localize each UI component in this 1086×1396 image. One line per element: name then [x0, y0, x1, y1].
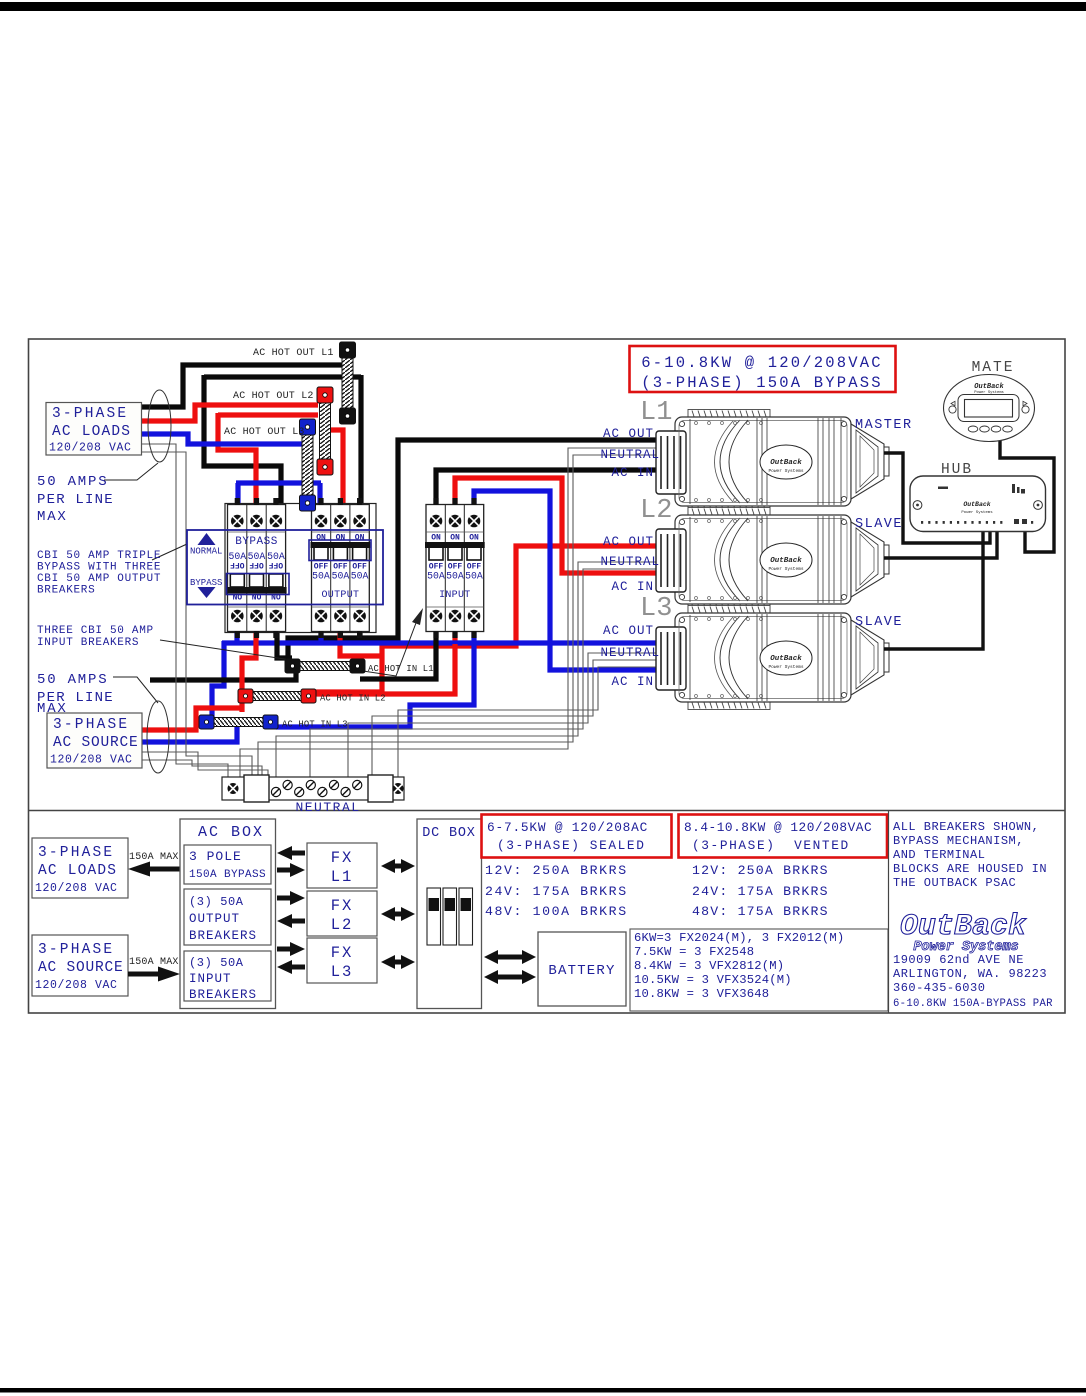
svg-text:(3) 50A: (3) 50A: [189, 956, 244, 970]
breaker module INPUT (3x 50A): [425, 498, 485, 638]
svg-text:ON: ON: [355, 534, 365, 543]
svg-text:3-PHASE: 3-PHASE: [38, 942, 114, 958]
svg-text:AC HOT OUT L2: AC HOT OUT L2: [233, 391, 314, 402]
title box 6-10.8KW: [630, 346, 896, 392]
svg-text:L1: L1: [331, 868, 354, 886]
svg-text:BYPASS: BYPASS: [235, 536, 278, 548]
svg-text:SLAVE: SLAVE: [855, 517, 903, 532]
svg-text:360-435-6030: 360-435-6030: [893, 981, 985, 995]
svg-text:24V: 175A BRKRS: 24V: 175A BRKRS: [692, 884, 829, 899]
arrow FX L1 to DC BOX: [381, 859, 415, 873]
svg-text:AC LOADS: AC LOADS: [38, 863, 117, 879]
svg-text:150A MAX: 150A MAX: [129, 852, 179, 863]
HUB communications manager: [910, 476, 1046, 532]
terminal strip AC HOT IN L2 (red): [238, 689, 316, 703]
block label AC LOADS: [35, 845, 118, 895]
svg-text:10.8KW = 3 VFX3648: 10.8KW = 3 VFX3648: [634, 987, 769, 1001]
svg-text:BYPASS WITH THREE: BYPASS WITH THREE: [37, 562, 161, 574]
svg-text:ON: ON: [450, 534, 460, 543]
svg-text:ON: ON: [316, 534, 326, 543]
label 3-PHASE AC SOURCE: [50, 717, 139, 767]
svg-text:INPUT: INPUT: [189, 972, 232, 986]
svg-text:Power Systems: Power Systems: [768, 664, 803, 670]
note CBI 50 AMP TRIPLE BYPASS: [37, 550, 161, 597]
svg-text:AND TERMINAL: AND TERMINAL: [893, 848, 985, 862]
svg-text:10.5KW = 3 VFX3524(M): 10.5KW = 3 VFX3524(M): [634, 973, 792, 987]
svg-text:12V: 250A BRKRS: 12V: 250A BRKRS: [692, 863, 829, 878]
svg-text:(3-PHASE) VENTED: (3-PHASE) VENTED: [692, 838, 850, 853]
AC BOX pole block: [184, 845, 271, 884]
svg-text:150A BYPASS: 150A BYPASS: [189, 869, 266, 881]
svg-text:ALL BREAKERS SHOWN,: ALL BREAKERS SHOWN,: [893, 820, 1039, 834]
cable inverter L2 to HUB: [884, 531, 997, 558]
svg-text:INPUT: INPUT: [439, 590, 471, 601]
leader line three CBI input breakers note: [160, 615, 419, 676]
kW model table text: [634, 931, 844, 1001]
arrow bypass block to FX L1: [277, 863, 305, 877]
svg-text:3 POLE: 3 POLE: [189, 849, 242, 864]
AC BOX input breakers block: [184, 951, 271, 1001]
svg-text:AC IN: AC IN: [611, 466, 654, 480]
svg-text:BATTERY: BATTERY: [548, 963, 615, 979]
neutral terminal block: [222, 775, 404, 802]
sealed breaker specs: [485, 863, 628, 919]
svg-text:FX: FX: [331, 944, 354, 962]
svg-text:AC IN: AC IN: [611, 675, 654, 689]
svg-text:3-PHASE: 3-PHASE: [53, 717, 129, 733]
arrow AC BOX to loads: [128, 862, 180, 877]
spec box sealed: [482, 815, 672, 858]
wire red INPUT pole2 bottom tap: [452, 626, 457, 648]
svg-text:50 AMPS: 50 AMPS: [37, 672, 108, 688]
note 50 AMPS PER LINE MAX (source): [37, 672, 114, 717]
svg-text:AC OUT: AC OUT: [603, 624, 654, 638]
cable inverter L1 to HUB: [884, 453, 990, 543]
wire black AC HOT OUT L1 from loads box to terminal strip L1: [141, 365, 344, 407]
node box 3-PHASE AC LOADS: [46, 403, 142, 456]
wire black from strip L1 down to OUTPUT breaker pole 3: [358, 375, 363, 508]
neutral wire L1 inverter a: [240, 448, 657, 777]
svg-text:AC HOT OUT L3: AC HOT OUT L3: [224, 427, 305, 438]
block box BATTERY: [538, 932, 626, 1006]
svg-text:HUB: HUB: [941, 462, 973, 478]
wire blue OUTPUT pole1 bottom tap: [318, 626, 323, 645]
svg-text:NEUTRAL: NEUTRAL: [600, 448, 660, 462]
arrow DC BOX to battery a: [484, 950, 536, 964]
svg-text:L2: L2: [640, 496, 672, 526]
wire blue AC HOT OUT L3 from loads box to terminal strip L3: [142, 434, 302, 444]
svg-text:120/208 VAC: 120/208 VAC: [35, 979, 118, 992]
inverter L1 (FX master): [656, 410, 889, 514]
svg-text:BREAKERS: BREAKERS: [189, 988, 257, 1002]
svg-text:L2: L2: [331, 916, 354, 934]
svg-text:50A: 50A: [351, 571, 369, 582]
svg-text:12V: 250A BRKRS: 12V: 250A BRKRS: [485, 863, 628, 878]
top title bar: [0, 2, 1086, 11]
label (3) 50A OUTPUT BREAKERS: [189, 895, 257, 943]
svg-text:120/208 VAC: 120/208 VAC: [35, 882, 118, 895]
svg-text:OutBack: OutBack: [900, 910, 1027, 944]
block box 3-PHASE AC SOURCE (diagram): [32, 935, 128, 996]
label 3 POLE 150A BYPASS: [189, 849, 266, 881]
wire black OUTPUT pole3 bottom tap: [357, 626, 362, 640]
block box FX L2: [307, 891, 377, 936]
node box 3-PHASE AC SOURCE: [47, 713, 142, 768]
svg-text:CBI 50 AMP OUTPUT: CBI 50 AMP OUTPUT: [37, 573, 161, 585]
wire black BYPASS pole3 bottom jog to strip L1: [277, 626, 292, 658]
wire red AC OUT L2 inverter run: [314, 546, 657, 692]
arrow FX L2 to output breakers: [277, 914, 305, 928]
svg-text:AC OUT: AC OUT: [603, 427, 654, 441]
neutral wire L2 inverter a: [276, 562, 657, 777]
spec box vented: [679, 815, 888, 858]
svg-text:NEUTRAL: NEUTRAL: [600, 555, 660, 569]
label 3-PHASE AC LOADS: [49, 406, 132, 455]
svg-text:Power Systems: Power Systems: [961, 510, 993, 515]
arrow FX L1 to bypass block: [277, 846, 305, 860]
svg-text:AC SOURCE: AC SOURCE: [53, 735, 139, 751]
wire blue BYPASS pole1 bottom tap: [234, 626, 239, 645]
svg-text:OutBack: OutBack: [770, 557, 802, 565]
svg-text:MAX: MAX: [37, 701, 68, 717]
terminal strip AC HOT OUT L3 (blue): [300, 419, 316, 511]
terminal strip AC HOT IN L1 (black): [285, 659, 365, 673]
arrow input breakers to FX L3: [277, 942, 305, 956]
note all breakers housed in PSAC: [893, 820, 1047, 890]
wire red second run to strip L2: [218, 412, 318, 417]
svg-text:48V: 175A BRKRS: 48V: 175A BRKRS: [692, 904, 829, 919]
neutral wire L3 inverter b: [372, 660, 657, 777]
svg-text:50A: 50A: [427, 571, 445, 582]
svg-text:ON: ON: [431, 534, 441, 543]
svg-text:CBI 50 AMP TRIPLE: CBI 50 AMP TRIPLE: [37, 550, 161, 562]
svg-text:THREE CBI 50 AMP: THREE CBI 50 AMP: [37, 625, 154, 637]
svg-text:AC OUT: AC OUT: [603, 535, 654, 549]
label FX L1: [331, 849, 354, 886]
neutral wire L3 inverter a: [348, 653, 657, 777]
arrow FX L3 to DC BOX: [381, 955, 415, 969]
svg-text:7.5KW = 3 FX2548: 7.5KW = 3 FX2548: [634, 945, 754, 959]
terminal strip AC HOT IN L3 (blue): [199, 715, 278, 729]
svg-text:6KW=3 FX2024(M), 3 FX2012(M): 6KW=3 FX2024(M), 3 FX2012(M): [634, 931, 844, 945]
wire red down to BYPASS breaker pole 2: [218, 413, 256, 516]
arrow FX L3 to input breakers: [277, 960, 305, 974]
note THREE CBI 50 AMP INPUT BREAKERS: [37, 625, 154, 649]
svg-text:BLOCKS ARE HOUSED IN: BLOCKS ARE HOUSED IN: [893, 862, 1047, 876]
svg-text:NEUTRAL: NEUTRAL: [295, 800, 360, 815]
svg-text:150A MAX: 150A MAX: [129, 957, 179, 968]
leader line 50 amps per line max upper: [104, 463, 158, 480]
svg-text:48V: 100A BRKRS: 48V: 100A BRKRS: [485, 904, 628, 919]
svg-text:AC HOT OUT L1: AC HOT OUT L1: [253, 348, 334, 359]
svg-text:NORMAL: NORMAL: [190, 547, 222, 557]
svg-text:SLAVE: SLAVE: [855, 615, 903, 630]
wire blue AC OUT L3 long run: [222, 640, 657, 645]
svg-text:PER LINE: PER LINE: [37, 492, 114, 508]
svg-text:AC HOT IN L2: AC HOT IN L2: [320, 694, 386, 704]
svg-text:8.4KW = 3 VFX2812(M): 8.4KW = 3 VFX2812(M): [634, 959, 784, 973]
wire red AC source to strip AC HOT IN L2: [142, 708, 242, 730]
normal position arrow: [190, 533, 222, 557]
label FX L2: [331, 897, 354, 934]
svg-text:8.4-10.8KW @ 120/208VAC: 8.4-10.8KW @ 120/208VAC: [684, 820, 872, 835]
wire blue AC source to strip AC HOT IN L3 left terminal: [142, 723, 237, 742]
svg-text:19009 62nd AVE NE: 19009 62nd AVE NE: [893, 953, 1024, 967]
kW model table box: [630, 929, 888, 1011]
block box FX L3: [307, 938, 377, 983]
wire black INPUT pole1 to strip AC HOT IN L1 right terminal: [360, 626, 436, 679]
svg-text:ON: ON: [469, 534, 479, 543]
wire red from strip L2 to OUTPUT breaker pole 2: [331, 430, 343, 508]
svg-text:OFF: OFF: [230, 560, 245, 569]
cable MATE to HUB: [1000, 437, 1054, 552]
info panel divider: [888, 811, 890, 1014]
AC BOX enclosure: [180, 819, 276, 1009]
arrow FX L2 to DC BOX: [381, 907, 415, 921]
neutral wire from AC source box a: [142, 752, 268, 777]
breaker module BYPASS (3x CBI 50A): [227, 498, 287, 638]
svg-text:BYPASS: BYPASS: [190, 578, 222, 588]
arrow source to AC BOX: [128, 967, 180, 982]
wire blue stub from strip L3 bottom terminal: [305, 483, 310, 496]
svg-text:120/208 VAC: 120/208 VAC: [50, 754, 133, 767]
svg-text:24V: 175A BRKRS: 24V: 175A BRKRS: [485, 884, 628, 899]
svg-text:MATE: MATE: [972, 360, 1015, 376]
wire blue down to OUTPUT breaker pole 1: [317, 483, 322, 508]
drawing frame border: [29, 339, 1066, 1013]
terminal strip AC HOT OUT L2 (red): [317, 387, 333, 475]
block label AC SOURCE: [35, 942, 124, 992]
cable bundle ellipse at AC loads: [148, 390, 171, 462]
svg-text:OFF: OFF: [269, 560, 284, 569]
svg-text:OutBack: OutBack: [963, 501, 990, 508]
cable inverter L3 to HUB: [884, 531, 983, 649]
AC wiring enclosure box: [225, 504, 376, 633]
svg-text:120/208 VAC: 120/208 VAC: [49, 442, 132, 455]
svg-text:AC SOURCE: AC SOURCE: [38, 960, 124, 976]
OutBack Power Systems logo: [900, 910, 1027, 955]
svg-text:(3-PHASE) 150A BYPASS: (3-PHASE) 150A BYPASS: [641, 374, 883, 392]
wire blue run under strip L3: [236, 480, 321, 485]
svg-text:6-10.8KW @ 120/208VAC: 6-10.8KW @ 120/208VAC: [641, 354, 883, 372]
svg-text:FX: FX: [331, 897, 354, 915]
svg-text:BREAKERS: BREAKERS: [189, 929, 257, 943]
wire red stub to strip L2 left terminal: [239, 694, 244, 712]
svg-text:AC LOADS: AC LOADS: [52, 424, 131, 440]
wire black down to BYPASS breaker pole 3: [204, 375, 281, 516]
address block: [893, 953, 1047, 995]
AC BOX output breakers block: [184, 889, 271, 945]
label FX L3: [331, 944, 354, 981]
svg-text:OUTPUT: OUTPUT: [321, 590, 359, 601]
svg-text:MAX: MAX: [37, 509, 68, 525]
svg-text:BYPASS MECHANISM,: BYPASS MECHANISM,: [893, 834, 1024, 848]
wire red INPUT pole2 to strip AC HOT IN L2 right terminal: [314, 644, 455, 694]
svg-text:AC BOX: AC BOX: [198, 824, 264, 841]
svg-text:AC HOT IN L3: AC HOT IN L3: [282, 720, 348, 730]
svg-text:OFF: OFF: [249, 560, 264, 569]
svg-text:3-PHASE: 3-PHASE: [52, 406, 128, 422]
svg-text:6-10.8KW 150A-BYPASS PAR: 6-10.8KW 150A-BYPASS PAR: [893, 998, 1053, 1010]
block box 3-PHASE AC LOADS (diagram): [32, 838, 128, 898]
svg-text:50A: 50A: [465, 571, 483, 582]
block box FX L1: [307, 843, 377, 888]
svg-text:AC IN: AC IN: [611, 580, 654, 594]
wire black AC OUT L1 inverter to strip/breaker: [288, 440, 657, 660]
MATE remote display: [944, 375, 1035, 442]
svg-text:Power Systems: Power Systems: [974, 390, 1004, 395]
wire red AC HOT OUT L2 from loads box to terminal strip L2: [142, 405, 318, 421]
svg-text:L1: L1: [640, 398, 672, 428]
svg-text:MASTER: MASTER: [855, 418, 913, 433]
wire red OUTPUT pole2 bottom jog: [340, 626, 382, 656]
inverter L2 (FX slave): [656, 508, 889, 612]
wire black upper horizontal run y375: [204, 374, 361, 379]
neutral wire from AC source box b: [142, 760, 262, 777]
wire blue INPUT pole3 to strip AC HOT IN L3 right terminal: [276, 626, 474, 727]
svg-text:OutBack: OutBack: [770, 655, 802, 663]
svg-text:L3: L3: [640, 594, 672, 624]
svg-text:OutBack: OutBack: [770, 459, 802, 467]
svg-text:ARLINGTON, WA. 98223: ARLINGTON, WA. 98223: [893, 967, 1047, 981]
svg-text:50 AMPS: 50 AMPS: [37, 474, 108, 490]
arrow output breakers to FX L2: [277, 891, 305, 905]
wire black AC source to strip AC HOT IN L1 left terminal: [150, 666, 296, 680]
svg-text:(3-PHASE) SEALED: (3-PHASE) SEALED: [497, 838, 645, 853]
svg-text:DC BOX: DC BOX: [422, 826, 475, 841]
svg-text:INPUT BREAKERS: INPUT BREAKERS: [37, 637, 139, 649]
svg-text:(3) 50A: (3) 50A: [189, 895, 244, 909]
wire blue down to BYPASS breaker pole 1: [235, 483, 240, 516]
neutral wire from AC loads box a: [141, 444, 228, 777]
section divider line: [29, 810, 1066, 812]
svg-text:NEUTRAL: NEUTRAL: [600, 646, 660, 660]
leader line CBI bypass note: [152, 544, 187, 560]
svg-text:AC HOT IN L1: AC HOT IN L1: [368, 664, 434, 674]
svg-text:Power Systems: Power Systems: [768, 566, 803, 572]
svg-text:ON: ON: [336, 534, 346, 543]
svg-text:BREAKERS: BREAKERS: [37, 585, 95, 597]
svg-text:50A: 50A: [312, 571, 330, 582]
inverter L3 (FX slave): [656, 606, 889, 710]
wire blue down to strip AC HOT IN L3 left terminal: [212, 641, 224, 718]
vented breaker specs: [692, 863, 829, 919]
wire red AC IN L2 from INPUT breaker pole 2: [455, 478, 657, 573]
DC BOX enclosure: [417, 819, 482, 1009]
svg-text:6-7.5KW @ 120/208AC: 6-7.5KW @ 120/208AC: [487, 820, 648, 835]
neutral wire L2 inverter b: [310, 569, 657, 777]
terminal strip AC HOT OUT L1 (black): [340, 342, 356, 424]
arrowhead input breakers leader: [412, 608, 423, 625]
label (3) 50A INPUT BREAKERS: [189, 956, 257, 1002]
svg-text:50A: 50A: [332, 571, 350, 582]
neutral wire L3 inverter c: [398, 667, 657, 777]
svg-text:L3: L3: [331, 963, 354, 981]
arrow DC BOX to battery b: [484, 970, 536, 984]
neutral wire L1 inverter b: [258, 455, 657, 777]
note 50 AMPS PER LINE MAX (loads): [37, 474, 114, 525]
DC breakers: [427, 888, 473, 945]
wire blue AC IN L3 from INPUT breaker pole 3: [474, 491, 657, 670]
svg-text:3-PHASE: 3-PHASE: [38, 845, 114, 861]
wire black AC IN L1 from INPUT breaker pole 1: [436, 470, 657, 508]
svg-text:FX: FX: [331, 849, 354, 867]
bypass position arrow: [190, 578, 222, 598]
wire red BYPASS pole2 to strip AC HOT IN L2 left terminal: [242, 626, 256, 692]
bottom rule: [0, 1388, 1086, 1393]
leader line 50 amps per line max lower: [113, 677, 158, 703]
bypass mechanism blue outline: [187, 530, 383, 605]
svg-text:THE OUTBACK PSAC: THE OUTBACK PSAC: [893, 876, 1016, 890]
svg-text:OUTPUT: OUTPUT: [189, 912, 240, 926]
breaker module OUTPUT (3x 50A): [311, 498, 371, 638]
cable bundle ellipse at AC source: [147, 701, 169, 773]
svg-text:50A: 50A: [446, 571, 464, 582]
svg-text:OutBack: OutBack: [974, 383, 1004, 391]
svg-text:Power Systems: Power Systems: [768, 468, 803, 474]
neutral wire from AC loads box b: [141, 452, 252, 777]
